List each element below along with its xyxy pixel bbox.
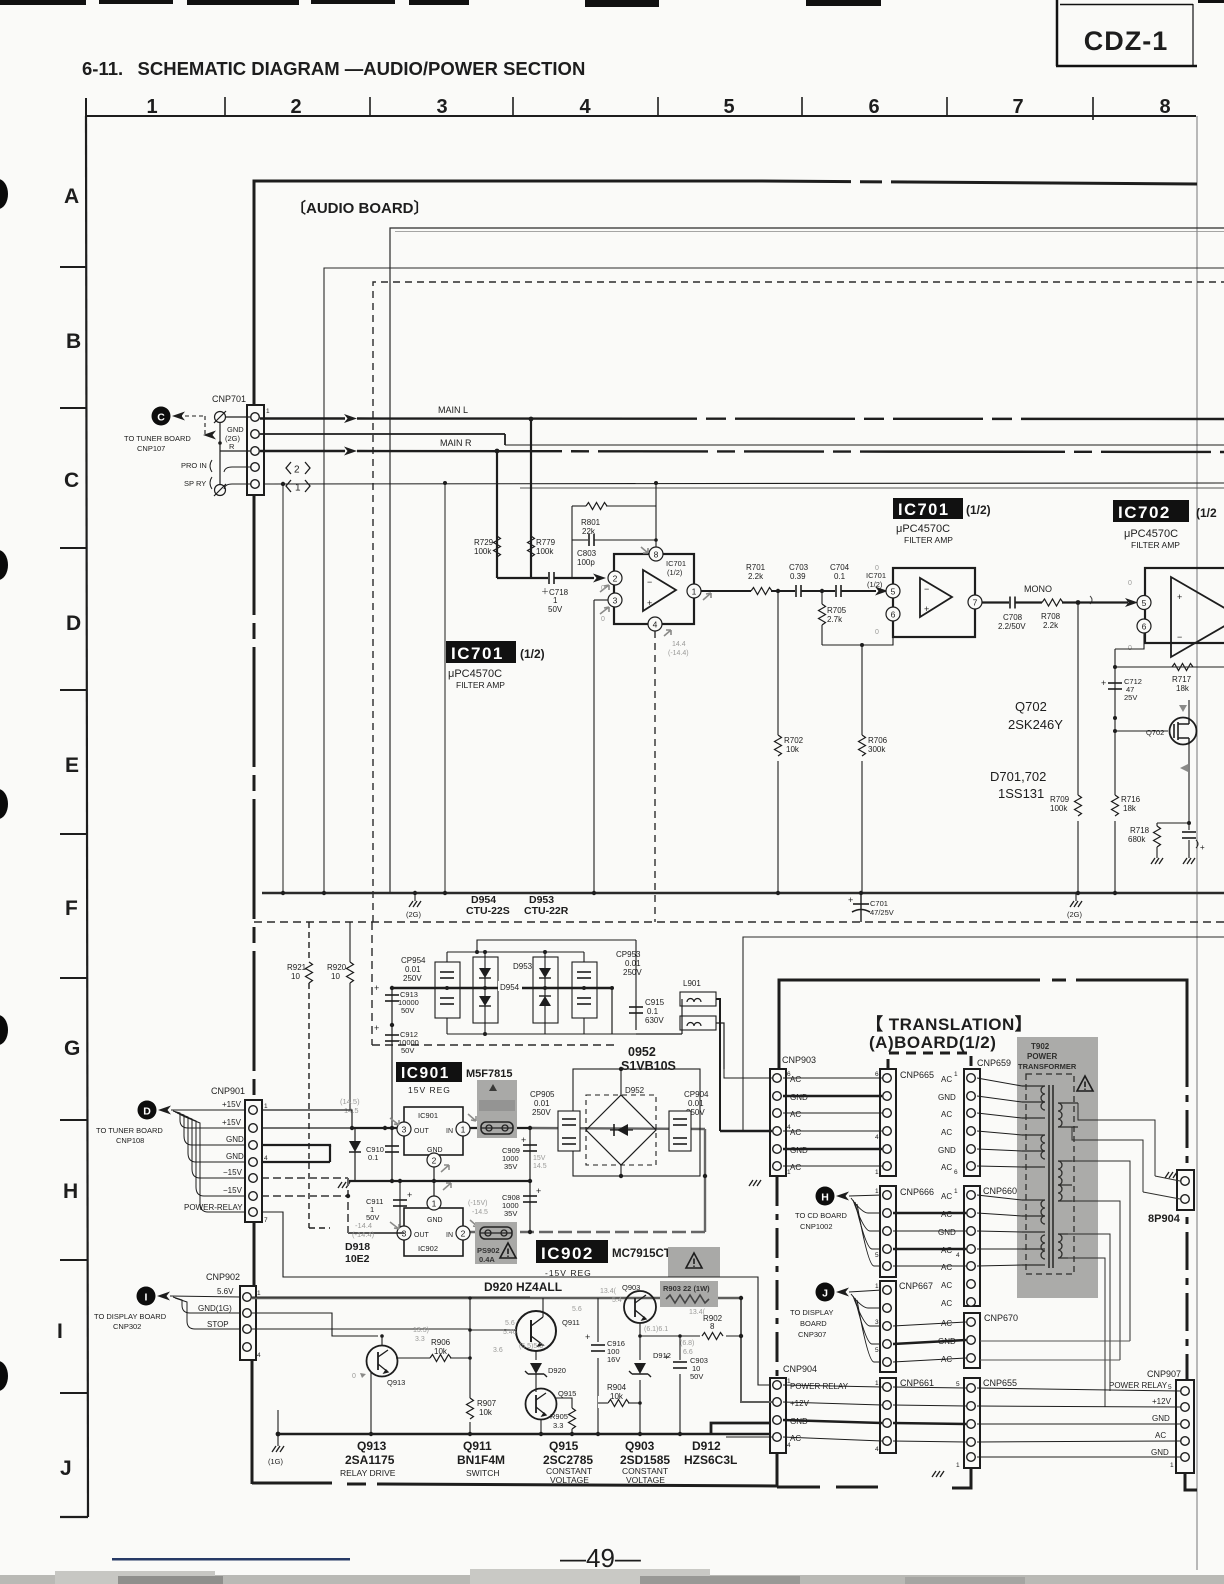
svg-text:RELAY DRIVE: RELAY DRIVE [340, 1468, 396, 1478]
svg-text:3.3: 3.3 [553, 1421, 563, 1430]
svg-text:IC701: IC701 [898, 501, 950, 519]
svg-text:FILTER AMP: FILTER AMP [456, 680, 505, 690]
wire vertical x445 [444, 483, 446, 893]
svg-text:AC: AC [941, 1163, 952, 1172]
wire Q913 collector right [390, 1358, 397, 1370]
svg-text:R729: R729 [474, 538, 494, 547]
wire POWER-RELAY down [261, 1212, 772, 1385]
svg-text:IC902: IC902 [418, 1244, 438, 1253]
capacitor C909 1000 35V [529, 1128, 531, 1181]
fuse PS901 gray block [477, 1080, 517, 1138]
regulator IC902 box [404, 1208, 463, 1256]
svg-text:BOARD: BOARD [800, 1319, 827, 1328]
wire from pin1 out [701, 590, 751, 592]
svg-text:1: 1 [432, 1199, 437, 1209]
svg-text:TO TUNER BOARD: TO TUNER BOARD [96, 1126, 163, 1135]
svg-text:1: 1 [146, 96, 157, 118]
wires from CNP902 [252, 1313, 378, 1336]
svg-text:1: 1 [875, 1283, 879, 1290]
resistor R904 10k [608, 1400, 629, 1407]
wires CNP667-CNP670 [893, 1322, 966, 1362]
wire Q911 collector up [542, 1298, 544, 1317]
svg-text:AC: AC [790, 1075, 801, 1084]
svg-text:PRO IN: PRO IN [181, 461, 207, 470]
svg-text:6: 6 [891, 610, 896, 620]
resistor R708 2.2k [1042, 599, 1063, 606]
feedback loop left vertical [571, 506, 573, 578]
svg-text:10k: 10k [610, 1392, 624, 1401]
svg-text:50V: 50V [548, 605, 563, 614]
resistor R701 2.2k [751, 588, 772, 595]
ground at 1076 (2G) [1075, 893, 1077, 901]
svg-text:6: 6 [875, 1071, 879, 1078]
wire out to CNP901 -15V [348, 1232, 404, 1234]
wire MAIN L drop at x531 [530, 419, 532, 578]
wire R to lower amp (thin) [260, 433, 505, 435]
wires into CNP904 from left [726, 1298, 772, 1437]
svg-text:R903 22 (1W): R903 22 (1W) [663, 1284, 710, 1293]
svg-text:GND: GND [427, 1217, 443, 1224]
gray warn block right [668, 1247, 720, 1277]
wire R702 drop [777, 591, 779, 893]
svg-text:0: 0 [601, 585, 605, 592]
svg-text:μPC4570C: μPC4570C [896, 523, 950, 535]
connector CNP670 [964, 1313, 980, 1368]
svg-text:1: 1 [956, 1462, 960, 1469]
wire right side to C915 [611, 988, 613, 1034]
svg-text:〔AUDIO BOARD〕: 〔AUDIO BOARD〕 [291, 199, 429, 217]
svg-text:CNP907: CNP907 [1147, 1369, 1181, 1379]
wires CNP903-CNP665 [783, 1078, 882, 1166]
wires CNP904-CNP661 area [783, 1385, 966, 1442]
svg-text:AC: AC [941, 1128, 952, 1137]
svg-text:CNP661: CNP661 [900, 1378, 934, 1388]
heavy -15 dashed wire [463, 1231, 705, 1234]
secondary output wires [1068, 1103, 1155, 1407]
pin 5 [886, 584, 900, 598]
svg-text:AC: AC [941, 1210, 952, 1219]
svg-text:AC: AC [941, 1263, 952, 1272]
svg-text:1: 1 [553, 596, 558, 605]
svg-text:H: H [821, 1192, 829, 1204]
wire source down [1188, 744, 1190, 823]
svg-text:35V: 35V [504, 1162, 517, 1171]
svg-text:14.5: 14.5 [533, 1163, 547, 1170]
svg-text:R709: R709 [1050, 795, 1070, 804]
svg-text:Q911: Q911 [562, 1318, 580, 1327]
ground left of CNP903 [754, 1160, 756, 1176]
svg-text:VOLTAGE: VOLTAGE [550, 1475, 589, 1485]
svg-text:3.6: 3.6 [493, 1347, 503, 1354]
svg-text:AC: AC [941, 1299, 952, 1308]
svg-text:13.4(: 13.4( [689, 1309, 706, 1316]
arrow tags 2 and 1 [286, 462, 310, 492]
svg-text:100k: 100k [1050, 804, 1068, 813]
svg-text:18k: 18k [1176, 684, 1190, 693]
svg-text:0: 0 [601, 616, 605, 623]
svg-text:MC7915CT: MC7915CT [612, 1248, 671, 1260]
svg-text:10k: 10k [479, 1408, 493, 1417]
svg-text:TO TUNER BOARD: TO TUNER BOARD [124, 434, 191, 443]
svg-text:35V: 35V [504, 1209, 517, 1218]
svg-text:300k: 300k [868, 745, 886, 754]
wire MAIN L [260, 417, 345, 419]
svg-text:D918: D918 [345, 1241, 370, 1253]
svg-text:H: H [63, 1180, 78, 1203]
svg-text:(-14.4): (-14.4) [668, 650, 689, 657]
svg-text:8: 8 [654, 550, 659, 560]
capacitor C803 100p [572, 539, 588, 541]
svg-text:IC901: IC901 [401, 1065, 450, 1082]
svg-text:AC: AC [941, 1281, 952, 1290]
secondary windings [1058, 1103, 1078, 1258]
svg-text:2SC2785: 2SC2785 [543, 1453, 593, 1467]
connector CNP903 [770, 1069, 786, 1176]
svg-text:6.6: 6.6 [683, 1349, 693, 1356]
svg-text:5: 5 [1168, 1384, 1172, 1391]
svg-text:1: 1 [954, 1071, 958, 1078]
svg-text:T902: T902 [1031, 1042, 1050, 1051]
op-amp IC702 box (cut at page edge) [1145, 568, 1224, 643]
svg-text:0.01: 0.01 [625, 959, 641, 968]
svg-text:BN1F4M: BN1F4M [457, 1453, 505, 1467]
svg-text:AC: AC [941, 1192, 952, 1201]
svg-text:CNP666: CNP666 [900, 1187, 934, 1197]
svg-text:0: 0 [875, 565, 879, 572]
resistor R706 300k [856, 735, 868, 761]
svg-text:6-11. SCHEMATIC DIAGRAM —AUDI: 6-11. SCHEMATIC DIAGRAM —AUDIO/POWER SEC… [82, 58, 585, 79]
svg-text:AC: AC [790, 1110, 801, 1119]
wire feedback rail [1114, 649, 1116, 667]
svg-text:10k: 10k [434, 1347, 448, 1356]
svg-text:A: A [64, 185, 79, 208]
svg-text:GND: GND [938, 1146, 956, 1155]
svg-text:Q915: Q915 [558, 1389, 576, 1398]
transformer T902 gray block [1017, 1037, 1155, 1407]
audio board outline top [254, 181, 756, 367]
svg-text:C701: C701 [870, 899, 888, 908]
transistor Q702 (FET) [1170, 718, 1197, 745]
svg-text:1: 1 [875, 1380, 879, 1387]
small gray pin arrows [600, 547, 711, 636]
svg-text:D: D [66, 612, 81, 635]
ground on rail [348, 1180, 385, 1182]
wire pin8 supply drop [655, 483, 657, 547]
svg-text:4: 4 [787, 1442, 791, 1449]
wire to Q915 [535, 1374, 537, 1392]
svg-text:MAIN R: MAIN R [440, 438, 472, 448]
svg-text:FILTER AMP: FILTER AMP [904, 535, 953, 545]
wire MAIN R drop at x497 [496, 451, 498, 578]
ground (1G) stub [277, 1410, 279, 1446]
capacitor C701 47/25V below bus [860, 893, 862, 922]
svg-text:【 TRANSLATION】: 【 TRANSLATION】 [866, 1014, 1032, 1034]
svg-text:-14.5: -14.5 [472, 1209, 488, 1216]
svg-text:8: 8 [710, 1322, 715, 1331]
svg-text:R906: R906 [431, 1338, 451, 1347]
diode D918 [354, 1128, 356, 1181]
svg-text:CP905: CP905 [530, 1090, 555, 1099]
svg-text:1: 1 [257, 1290, 261, 1297]
svg-text:Q911: Q911 [463, 1439, 492, 1453]
svg-text:CP954: CP954 [401, 956, 426, 965]
regulator IC901 box [404, 1107, 463, 1155]
fan wires CNP901 [171, 1110, 245, 1212]
ground right of CNP660 [1165, 1172, 1177, 1178]
svg-text:+: + [1101, 678, 1106, 688]
wire Q911 base [470, 1329, 515, 1331]
svg-text:4: 4 [579, 96, 591, 118]
svg-text:POWER RELAY: POWER RELAY [1109, 1381, 1168, 1390]
svg-text:B: B [66, 330, 81, 353]
svg-text:AC: AC [790, 1434, 801, 1443]
svg-text:POWER-RELAY: POWER-RELAY [184, 1203, 243, 1212]
node H circle to CD board [816, 1187, 835, 1206]
svg-text:1: 1 [692, 587, 697, 597]
wire GND pins to rail [261, 1145, 330, 1147]
svg-text:D952: D952 [625, 1086, 645, 1095]
svg-text:2SA1175: 2SA1175 [345, 1453, 395, 1467]
capacitor C913 10000 50V [391, 988, 393, 1181]
resistor R801 22k [572, 505, 586, 507]
wire Q911 emitter down to D920 [535, 1351, 537, 1360]
cap box 1 [435, 962, 460, 1018]
svg-text:0.01: 0.01 [688, 1099, 704, 1108]
svg-text:C: C [64, 469, 79, 492]
wire Q903 base left [612, 1306, 624, 1308]
svg-text:GND: GND [226, 1135, 244, 1144]
thin lines crossing right area [986, 1340, 1130, 1342]
resistor R902 [700, 1329, 726, 1341]
svg-text:CTU-22S: CTU-22S [466, 905, 510, 917]
svg-text:1: 1 [264, 1103, 268, 1110]
nested thin rect B [324, 268, 1224, 893]
wire C712 vertical [1114, 667, 1116, 893]
svg-text:10: 10 [331, 972, 340, 981]
pin 6 [886, 607, 900, 621]
svg-text:CNP903: CNP903 [782, 1055, 816, 1065]
svg-text:CTU-22R: CTU-22R [524, 905, 569, 917]
svg-text:CNP302: CNP302 [113, 1322, 141, 1331]
svg-text:0.1: 0.1 [834, 572, 846, 581]
nested thin rect A [390, 228, 1224, 893]
left border with row letters [86, 116, 88, 1517]
cap box 2 [572, 962, 597, 1018]
svg-text:CNP108: CNP108 [116, 1136, 144, 1145]
svg-text:R921: R921 [287, 963, 307, 972]
capacitor C703 0.39 [796, 585, 801, 597]
transistor Q911 [516, 1311, 556, 1351]
svg-text:R904: R904 [607, 1383, 627, 1392]
svg-text:(A)BOARD(1/2): (A)BOARD(1/2) [869, 1033, 996, 1052]
svg-text:CNP307: CNP307 [798, 1330, 826, 1339]
wire pin3 down to bus [594, 599, 608, 601]
svg-text:6: 6 [868, 96, 879, 118]
svg-text:Q913: Q913 [357, 1439, 387, 1453]
resistor R907 10k [464, 1398, 476, 1422]
svg-text:5: 5 [875, 1347, 879, 1354]
pin 6 [1137, 619, 1151, 633]
svg-text:2: 2 [432, 1156, 437, 1166]
svg-text:GND(1G): GND(1G) [198, 1304, 232, 1313]
svg-text:(1/2): (1/2) [867, 580, 883, 589]
scan artifact: top edge black strips [0, 0, 86, 5]
svg-text:R705: R705 [827, 606, 847, 615]
connector 8P904 [1143, 1170, 1194, 1225]
svg-text:8: 8 [1159, 96, 1170, 118]
svg-text:1: 1 [954, 1188, 958, 1195]
connector CNP904 [770, 1378, 786, 1453]
svg-text:AC: AC [941, 1075, 952, 1084]
wire MAIN R [260, 450, 345, 452]
svg-text:47/25V: 47/25V [870, 908, 894, 917]
capacitor C717 [1188, 823, 1190, 830]
dashed sub-board outline [371, 922, 373, 1045]
svg-text:R716: R716 [1121, 795, 1141, 804]
svg-text:+: + [374, 1023, 379, 1033]
connector CNP667 [880, 1281, 896, 1372]
node J circle to display board [816, 1283, 835, 1302]
ground under CNP659 bottom [937, 1462, 939, 1466]
svg-text:L901: L901 [683, 979, 701, 988]
svg-text:2.2/50V: 2.2/50V [998, 622, 1026, 631]
svg-text:50V: 50V [401, 1046, 414, 1055]
wire drain up [1188, 700, 1190, 718]
svg-text:250V: 250V [532, 1108, 551, 1117]
connector CNP661 [880, 1378, 896, 1453]
svg-text:IN: IN [446, 1232, 453, 1239]
svg-text:50V: 50V [690, 1372, 703, 1381]
primary windings [1022, 1086, 1045, 1265]
svg-text:D953: D953 [513, 962, 533, 971]
svg-text:PS902: PS902 [477, 1246, 500, 1255]
svg-text:250V: 250V [403, 974, 422, 983]
svg-text:+: + [664, 1352, 669, 1362]
node C circle to tuner board [152, 407, 171, 426]
node I circle to display board [137, 1287, 156, 1306]
svg-text:CNP904: CNP904 [783, 1364, 817, 1374]
wire SP RY line [263, 483, 1224, 484]
svg-text:GND: GND [790, 1146, 808, 1155]
svg-text:CNP660: CNP660 [983, 1186, 1017, 1196]
capacitor block CP905 [558, 1111, 580, 1151]
wires CNP660 to T902 primary lower [977, 1195, 1022, 1266]
resistor R716 18k on C712 line [1109, 795, 1121, 821]
wire Q915 base left [520, 1403, 536, 1405]
svg-text:AC: AC [941, 1246, 952, 1255]
svg-text:3: 3 [613, 596, 618, 606]
svg-text:+: + [521, 1135, 526, 1145]
resistor R921 10 on dashed drop [308, 922, 310, 962]
svg-text:+: + [585, 1332, 590, 1342]
main bus row F [262, 892, 1224, 895]
svg-text:1SS131: 1SS131 [998, 786, 1044, 801]
svg-text:GND: GND [1152, 1414, 1170, 1423]
ground under R718 [1151, 858, 1163, 864]
svg-text:STOP: STOP [207, 1320, 229, 1329]
main dc rail [392, 987, 612, 989]
resistor R705 2.7k vertical [821, 591, 823, 604]
fan wires CNP902 [170, 1296, 240, 1329]
svg-text:(1/2): (1/2) [667, 568, 683, 577]
heavy elbow below CNP907 [1185, 1473, 1197, 1490]
IC702 label block [1113, 500, 1189, 522]
svg-text:C: C [157, 412, 165, 424]
left edge dashed below CNP903 [776, 1176, 779, 1378]
diode D912 zener [632, 1360, 648, 1380]
svg-text:(1/2): (1/2) [520, 647, 545, 661]
wire Q913 base from top [381, 1336, 383, 1345]
wire Q903 emitter down [639, 1323, 641, 1434]
svg-text:0: 0 [875, 629, 879, 636]
svg-text:—49—: —49— [560, 1543, 641, 1573]
svg-text:680k: 680k [1128, 835, 1146, 844]
svg-text:−15V: −15V [223, 1186, 243, 1195]
heavy stub above CNP907 [1186, 1340, 1189, 1380]
svg-text:5.6V: 5.6V [217, 1287, 234, 1296]
heavy elbow below CNP655 [952, 1468, 971, 1488]
svg-text:GND: GND [227, 425, 244, 434]
svg-text:GND: GND [1151, 1448, 1169, 1457]
feedback wire to pin6 [822, 621, 893, 645]
svg-text:100p: 100p [577, 558, 595, 567]
svg-text:1: 1 [266, 408, 270, 415]
connecting rails of block [447, 940, 636, 1034]
svg-text:250V: 250V [623, 968, 642, 977]
svg-text:+: + [407, 1190, 412, 1200]
svg-text:TO DISPLAY BOARD: TO DISPLAY BOARD [94, 1312, 167, 1321]
svg-text:2: 2 [461, 1229, 466, 1239]
svg-text:+12V: +12V [1152, 1397, 1172, 1406]
svg-text:3: 3 [436, 96, 447, 118]
svg-text:IN: IN [446, 1128, 453, 1135]
svg-text:5.6: 5.6 [572, 1306, 582, 1313]
svg-text:2: 2 [613, 574, 618, 584]
svg-text:M5F7815: M5F7815 [466, 1068, 512, 1080]
svg-text:(-14.4): (-14.4) [352, 1230, 375, 1239]
svg-text:6: 6 [954, 1169, 958, 1176]
wire R709 drop [1077, 603, 1079, 894]
svg-text:TO CD BOARD: TO CD BOARD [795, 1211, 848, 1220]
pin 7 [968, 595, 982, 609]
svg-text:HZS6C3L: HZS6C3L [684, 1453, 737, 1467]
svg-text:AC: AC [790, 1128, 801, 1137]
svg-text:+: + [924, 604, 929, 614]
svg-text:SP RY: SP RY [184, 479, 206, 488]
svg-text:(6.8): (6.8) [680, 1340, 694, 1347]
svg-text:SWITCH: SWITCH [466, 1468, 500, 1478]
shield dashed box [1026, 1074, 1074, 1274]
svg-text:C718: C718 [549, 588, 569, 597]
svg-text:630V: 630V [645, 1016, 664, 1025]
op-amp U=IC701a box [614, 554, 694, 624]
svg-text:-14.4: -14.4 [355, 1221, 372, 1230]
svg-text:1: 1 [461, 1125, 466, 1135]
svg-text:FILTER AMP: FILTER AMP [1131, 540, 1180, 550]
svg-text:J: J [60, 1457, 72, 1480]
svg-text:5.4: 5.4 [612, 1297, 622, 1304]
capacitor C718 [549, 572, 554, 584]
svg-text:S1VB10S: S1VB10S [621, 1059, 676, 1073]
svg-text:−: − [647, 577, 652, 587]
pin 5 [1137, 596, 1151, 610]
svg-text:CNP901: CNP901 [211, 1086, 245, 1096]
svg-text:4: 4 [653, 620, 658, 630]
svg-text:−15V: −15V [223, 1168, 243, 1177]
ac feed wire to board [700, 1069, 770, 1078]
main +15 wire through regulator [352, 1127, 404, 1129]
svg-text:7: 7 [264, 1217, 268, 1224]
